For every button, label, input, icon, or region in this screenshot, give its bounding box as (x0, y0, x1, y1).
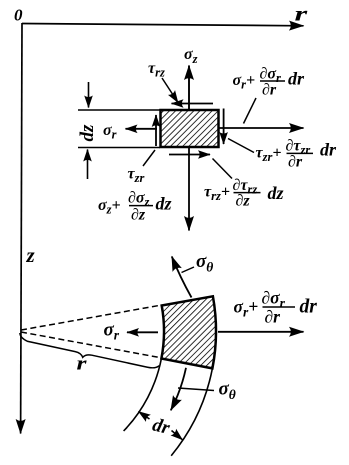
r axis (22, 24, 304, 26)
svg-text:dr: dr (320, 140, 337, 160)
arrow sigma_theta (bottom, along arc) (171, 368, 186, 411)
svg-text:dr: dr (288, 69, 305, 89)
label tau_zr (128, 166, 145, 186)
label sigma_r + dsigma_r/dr dr (wedge) (234, 288, 318, 327)
inner cylindrical arc (124, 359, 162, 432)
leader tau_zr+ (228, 139, 254, 153)
label r (radius) (77, 353, 87, 374)
stress element (hatched rectangle) (161, 110, 219, 147)
svg-text:∂z: ∂z (131, 207, 146, 224)
arrow sigma_z (top face, up) (188, 66, 190, 111)
dz dimension arrow top (88, 82, 90, 108)
label dr (dimension) (150, 414, 172, 439)
leader sigma_theta bottom (178, 388, 214, 391)
label sigma_r (103, 122, 117, 142)
dr dimension arrow outer (172, 431, 183, 440)
z axis (21, 23, 22, 434)
arrow sigma_z + dsigma_z (bottom face, down) (188, 148, 190, 231)
svg-text:∂r: ∂r (288, 154, 303, 171)
leader tau_zr (143, 150, 155, 166)
arrow sigma_r + dsigma_r (wedge outer face) (218, 331, 304, 333)
svg-text:dz: dz (268, 183, 284, 203)
brace for r (18, 333, 160, 373)
arrow sigma_r + d sigma_r (right face) (219, 127, 304, 129)
svg-text:r: r (77, 353, 87, 374)
svg-text:∂z: ∂z (236, 193, 251, 210)
svg-text:∂r: ∂r (265, 307, 281, 327)
leader sigma_theta top (182, 267, 195, 273)
extension line top (78, 109, 160, 111)
arrow tau_zr (left face, up) (155, 115, 157, 146)
label sigma_theta (top) (196, 251, 213, 275)
svg-text:0: 0 (14, 6, 23, 25)
leader tau_rz (162, 78, 178, 103)
label sigma_r + dsigma_r/dr dr (233, 66, 306, 99)
label sigma_theta (bottom) (219, 379, 236, 403)
label sigma_z (184, 46, 198, 66)
svg-text:∂r: ∂r (262, 82, 277, 99)
svg-text:dz: dz (77, 124, 98, 142)
arrow tau_rz (top face, left) (172, 103, 214, 105)
label tau_rz (148, 60, 165, 80)
label tau_rz + dtau_rz/dz dz (204, 177, 284, 210)
svg-text:dr: dr (300, 297, 318, 318)
dashed radius line upper (21, 305, 160, 330)
svg-text:z: z (26, 243, 36, 267)
label z (axis) (26, 243, 36, 267)
dz dimension arrow bottom (87, 150, 89, 180)
extension line bottom (78, 147, 160, 149)
dr dimension arrow inner (139, 412, 150, 420)
label tau_zr + dtau_zr/dr dr (256, 138, 338, 171)
arrow tau_zr + dtau_zr (right face, down) (223, 109, 225, 145)
label r (axis) (295, 2, 308, 25)
label 0 (origin) (14, 6, 23, 25)
svg-text:dz: dz (156, 194, 172, 214)
label dz (rotated) (77, 124, 98, 142)
arrow sigma_r (left face) (126, 128, 158, 130)
outer cylindrical arc (171, 368, 212, 455)
dashed radius line lower (21, 332, 160, 358)
svg-text:r: r (295, 2, 308, 25)
label sigma_r (wedge) (104, 320, 120, 343)
label sigma_z + dsigma_z/dz dz (98, 190, 172, 224)
arrow sigma_theta (top face of wedge) (172, 257, 192, 298)
leader sigma_r+ (top) (244, 98, 257, 124)
wedge element (hatched annular sector) (161, 296, 216, 368)
arrow tau_rz + dtau_rz (bottom face, right) (169, 154, 210, 156)
leader tau_rz+ (213, 159, 233, 179)
arrow sigma_r (wedge inner face) (127, 331, 158, 333)
